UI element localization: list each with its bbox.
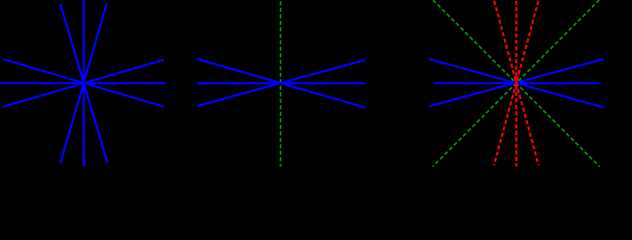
wire: P3 red dashed steep line slope +7/2 <box>494 1 538 165</box>
wire: P3 green dashed diagonal slope -1 <box>433 0 600 167</box>
wire: P1 steep line slope +7/2 <box>60 4 107 163</box>
wire: P1 shallow line slope +2/7 <box>3 59 164 107</box>
wire: P2 shallow line slope +2/7 <box>197 59 366 108</box>
wire: P3 red dashed vertical line <box>515 0 517 167</box>
pencil 1 (left): six solid blue lines through center (83.7,83.2) <box>0 0 166 167</box>
wire: P1 horizontal line <box>0 82 166 84</box>
pencil 3 (right): blue solid shallow lines, red dashed steep lines, green dashed diagonals through (516.3,83.2) <box>433 0 600 167</box>
wire: P3 green dashed diagonal slope +1 <box>433 0 600 167</box>
wire: P1 shallow line slope -2/7 <box>3 60 164 107</box>
wire: P1 steep line slope -7/2 <box>60 3 106 163</box>
wire: P2 shallow line slope -2/7 <box>197 60 366 106</box>
wire: P2 green dashed vertical line <box>280 0 282 167</box>
wire: P1 vertical line <box>83 0 85 167</box>
wire: P3 shallow line slope -2/7 <box>429 59 604 106</box>
wire: P3 red dashed steep line slope -7/2 <box>494 1 538 165</box>
wire: P3 horizontal line <box>434 82 600 84</box>
wire: P2 horizontal line <box>197 82 366 84</box>
wire: P3 shallow line slope +2/7 <box>429 59 604 107</box>
